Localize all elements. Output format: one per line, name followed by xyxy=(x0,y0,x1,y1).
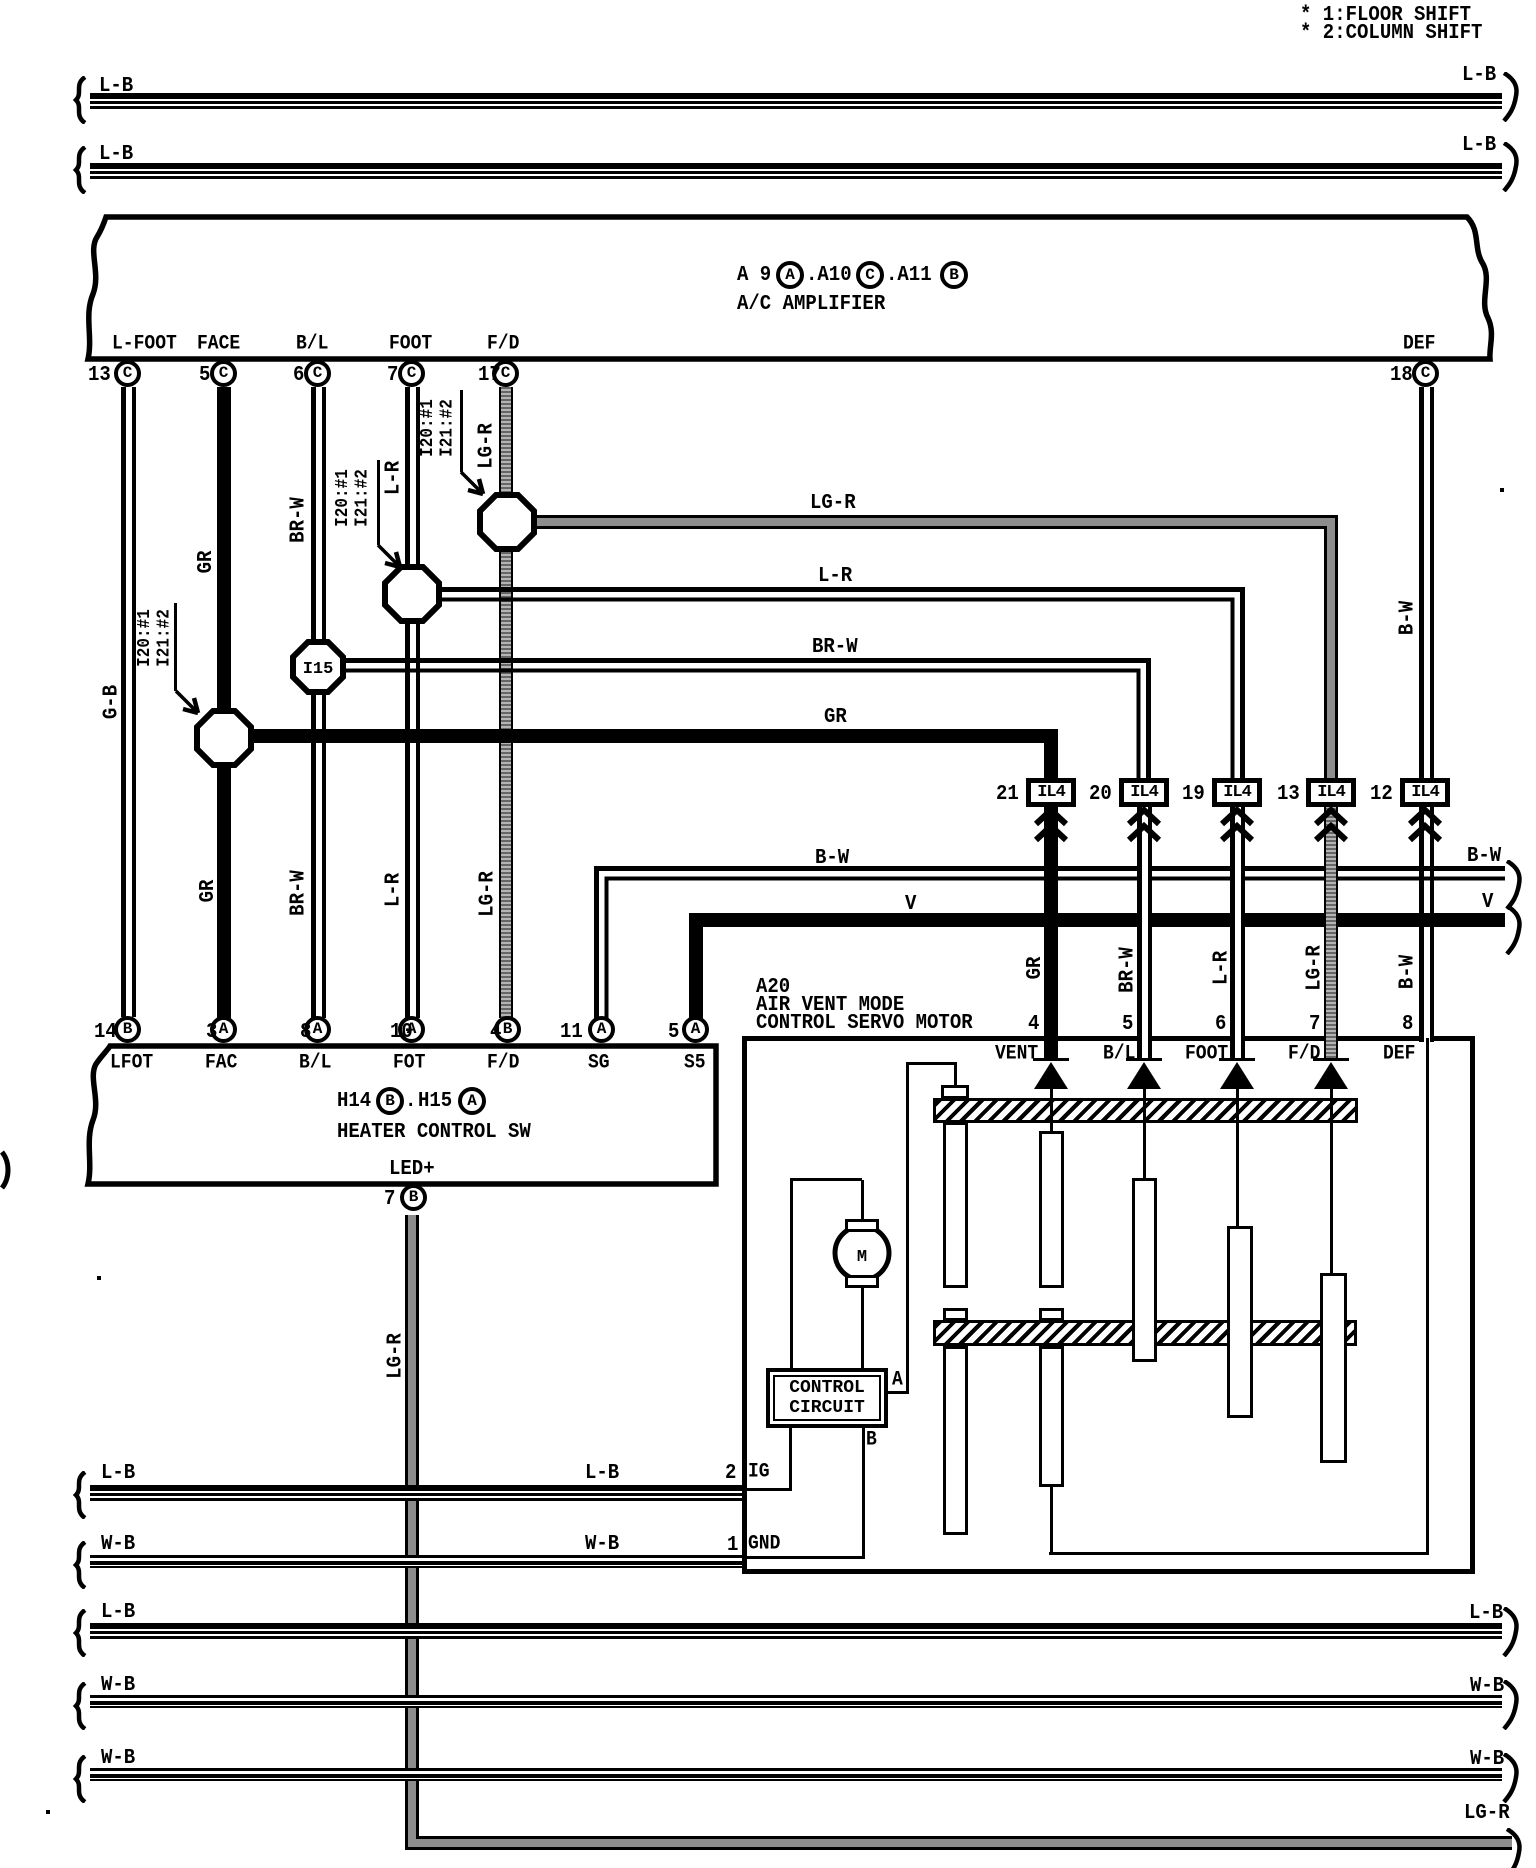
heater switch pin 7 connector B xyxy=(400,1184,427,1211)
connector 21 IL4 chevron xyxy=(1032,807,1070,845)
amplifier pin 7 connector C xyxy=(398,360,425,387)
wire GR to heater pin 3 (lower) xyxy=(217,760,231,1018)
wire L-B bus 1 left break xyxy=(70,76,90,124)
label L-R upper xyxy=(383,459,408,497)
wire L-R to heater pin 10 (lower) xyxy=(405,614,420,1018)
splice label I20:#1 I21:#2 (FACE) xyxy=(136,590,177,686)
heater switch pin name FOT xyxy=(393,1053,425,1074)
op-amp/ECU box A9-A10-A11 A/C AMPLIFIER outline xyxy=(0,0,1536,400)
wire L-B bus 3 label left xyxy=(101,1601,135,1624)
servo pin 2 number xyxy=(725,1462,736,1485)
wire W-B bus 5 xyxy=(90,1768,1502,1781)
A/C amplifier title text A 9 xyxy=(737,264,771,287)
splice label underline (F/D) xyxy=(460,390,463,472)
wire W-B bus 4 right break xyxy=(1500,1680,1522,1730)
wire L-B bus 3 xyxy=(90,1623,1502,1639)
servo VENT contact crossbar xyxy=(1033,1058,1069,1061)
wire W-B bus 5 left break xyxy=(70,1755,90,1803)
wire W-B to GND mid label xyxy=(585,1533,619,1556)
wire L-B bus 3 label right xyxy=(1469,1602,1503,1625)
servo motor box A20 outline xyxy=(742,1036,1475,1574)
servo pin name B/L xyxy=(1103,1044,1135,1065)
note: shift type legend line 1 xyxy=(1300,4,1471,27)
heater switch pin name F/D xyxy=(487,1053,519,1074)
wire LG-R bottom right break xyxy=(1503,1828,1525,1868)
label GR lower xyxy=(197,878,222,905)
amplifier pin 5 number xyxy=(199,364,210,387)
splice arrow (FOOT) xyxy=(376,543,408,575)
splice label underline (FACE) xyxy=(174,603,177,691)
amplifier pin name L-FOOT xyxy=(112,334,177,355)
amplifier pin 18 number xyxy=(1390,364,1413,387)
connector 12 IL4 box xyxy=(1400,778,1450,807)
heater switch pin 7 number xyxy=(384,1188,395,1211)
wire L-B to IG left break xyxy=(70,1471,90,1519)
connector 19 IL4 number xyxy=(1182,783,1205,806)
svg-text:M: M xyxy=(857,1248,867,1267)
wire W-B bus 4 left break xyxy=(70,1682,90,1730)
page edge mark xyxy=(0,1150,12,1190)
servo IG internal wire xyxy=(742,1488,792,1491)
servo FOOT wiper drop wire xyxy=(1236,1089,1239,1226)
servo B/L wiper contact triangle xyxy=(1127,1062,1161,1089)
servo pin 4 number xyxy=(1028,1013,1039,1036)
label LG-R lower xyxy=(477,869,502,919)
control circuit wire A stub xyxy=(888,1391,908,1394)
label L-R horizontal xyxy=(818,565,852,588)
A/C amplifier title .A11 xyxy=(886,264,932,287)
wire L-B bus 1 label right xyxy=(1462,64,1496,87)
label V right xyxy=(1482,891,1493,914)
label LG-R upper xyxy=(476,421,501,471)
wire W-B bus 5 label left xyxy=(101,1747,135,1770)
stray dot 1 xyxy=(97,1276,101,1280)
servo label CONTROL SERVO MOTOR xyxy=(756,1012,973,1035)
servo contact rail 1 (hatched) xyxy=(933,1098,1358,1123)
heater switch pin 8 connector A xyxy=(304,1016,331,1043)
servo F/D contact crossbar xyxy=(1313,1058,1349,1061)
heater switch pin 11 connector A xyxy=(588,1016,615,1043)
splice label underline (FOOT) xyxy=(377,460,380,545)
heater switch pin 8 number xyxy=(300,1021,311,1044)
connector 20 IL4 chevron xyxy=(1125,807,1163,845)
wire L-B to IG xyxy=(90,1485,742,1501)
heater switch title dot xyxy=(405,1090,416,1113)
wire L-R from pin 7 (upper) xyxy=(405,387,420,577)
amplifier pin 13 connector C xyxy=(114,360,141,387)
wire W-B to GND xyxy=(90,1555,742,1568)
control circuit box xyxy=(766,1368,888,1428)
note: shift type legend line 2 xyxy=(1300,22,1482,45)
A/C amplifier title circle A xyxy=(776,261,804,289)
splice arrow (FACE) xyxy=(174,689,206,721)
servo rail2 tab VENT column xyxy=(1039,1308,1064,1321)
heater switch pin 4 number xyxy=(490,1021,501,1044)
wire W-B bus 5 right break xyxy=(1500,1753,1522,1803)
splice arrow (F/D) xyxy=(459,470,491,502)
amplifier pin 7 number xyxy=(387,364,398,387)
wire L-B bus 2 label left xyxy=(99,143,133,166)
servo label AIR VENT MODE xyxy=(756,994,904,1017)
wire L-B bus 1 xyxy=(90,93,1502,109)
wire G-B from pin 13 xyxy=(121,387,136,1017)
label B-W upper xyxy=(1397,599,1422,637)
label B-W left xyxy=(815,847,849,870)
servo lower resistor VENT column xyxy=(1039,1346,1064,1487)
connector 12 IL4 chevron xyxy=(1406,807,1444,845)
label BR-W servo xyxy=(1117,945,1142,995)
label LG-R servo xyxy=(1304,943,1329,993)
label GR servo xyxy=(1024,955,1049,982)
motor top horizontal wire xyxy=(790,1178,862,1181)
servo B/L wiper drop wire xyxy=(1143,1089,1146,1178)
wire W-B bus 5 label right xyxy=(1470,1748,1504,1771)
control circuit wire B drop xyxy=(862,1428,865,1559)
amplifier pin name DEF xyxy=(1403,334,1435,355)
amplifier pin 6 connector C xyxy=(304,360,331,387)
servo F/D wiper contact triangle xyxy=(1314,1062,1348,1089)
label BR-W upper xyxy=(288,495,313,545)
connector 13 IL4 chevron xyxy=(1312,807,1350,845)
A/C amplifier title line 2 xyxy=(737,293,885,316)
servo GND internal wire xyxy=(742,1556,864,1559)
connector 12 IL4 number xyxy=(1370,783,1393,806)
servo pin 1 number xyxy=(727,1534,738,1557)
A/C amplifier title circle C xyxy=(856,261,884,289)
label V left xyxy=(905,893,916,916)
amplifier pin name FACE xyxy=(197,334,240,355)
connector 19 IL4 chevron xyxy=(1218,807,1256,845)
control circuit wire A riser xyxy=(906,1062,909,1394)
control circuit wire A to rail tab xyxy=(954,1062,957,1086)
servo pin name FOOT xyxy=(1185,1044,1228,1065)
servo pin name DEF xyxy=(1383,1044,1415,1065)
wire GR IL4-21 to servo pin 4 xyxy=(1044,800,1058,1058)
label LG-R bottom right xyxy=(1464,1802,1510,1825)
heater switch title circle B xyxy=(376,1087,404,1115)
servo pin 6 number xyxy=(1215,1013,1226,1036)
heater switch title line 2 xyxy=(337,1121,531,1144)
wire GR from pin 5 (upper) xyxy=(217,387,231,717)
wire B-W right break xyxy=(1503,860,1525,910)
label L-R lower xyxy=(383,871,408,909)
label L-R servo xyxy=(1211,949,1236,987)
servo pin 7 number xyxy=(1309,1013,1320,1036)
label BR-W horizontal xyxy=(812,636,858,659)
splice label I20:#1 I21:#2 (FOOT) xyxy=(334,450,375,546)
connector 13 IL4 box xyxy=(1306,778,1356,807)
amplifier pin 6 number xyxy=(293,364,304,387)
heater switch LED+ label xyxy=(389,1158,435,1181)
servo wire VENT column to ground bus xyxy=(1050,1487,1053,1555)
wire BR-W to heater pin 8 (lower) xyxy=(311,685,326,1018)
wire LG-R IL4-13 to servo pin 7 xyxy=(1324,800,1338,1058)
motor brush top xyxy=(845,1219,879,1232)
switch box H14/H15 HEATER CONTROL SW outline xyxy=(0,1000,800,1250)
servo lower resistor A column xyxy=(943,1346,968,1535)
servo rail1 slider tab (A) xyxy=(941,1085,969,1099)
servo contact rail 2 (hatched) xyxy=(933,1320,1357,1346)
A/C amplifier title circle B xyxy=(940,261,968,289)
wire L-B to IG mid label xyxy=(585,1462,619,1485)
amplifier pin name B/L xyxy=(296,334,328,355)
control circuit terminal A label xyxy=(892,1370,903,1391)
connector 20 IL4 number xyxy=(1089,783,1112,806)
wire W-B bus 4 xyxy=(90,1695,1502,1708)
label G-B xyxy=(101,683,126,721)
splice I20/I21 on LG-R (F/D) xyxy=(0,0,600,800)
label GR horizontal xyxy=(824,706,847,729)
servo VENT wiper contact triangle xyxy=(1034,1062,1068,1089)
label B-W lower (pin 8 drop) xyxy=(1397,953,1422,991)
servo resistor element FOOT column xyxy=(1227,1226,1253,1418)
servo internal wire DEF pin 8 drop xyxy=(1426,1038,1429,1555)
heater switch title circle A xyxy=(458,1087,486,1115)
wire L-B bus 1 right break xyxy=(1500,72,1522,122)
servo F/D wiper drop wire xyxy=(1330,1089,1333,1273)
wire LG-R from pin 17 (upper) xyxy=(499,387,513,505)
stray dot 3 xyxy=(1500,488,1504,492)
wire W-B bus 4 label left xyxy=(101,1674,135,1697)
servo FOOT wiper contact triangle xyxy=(1220,1062,1254,1089)
wire L-B bus 1 label left xyxy=(99,75,133,98)
servo pin IG name xyxy=(748,1462,770,1483)
splice I20/I21 on L-R (FOOT) xyxy=(0,0,600,800)
amplifier pin 18 connector C xyxy=(1412,360,1439,387)
heater switch pin name B/L xyxy=(299,1053,331,1074)
wire L-B bus 3 right break xyxy=(1500,1607,1522,1657)
servo pin name F/D xyxy=(1288,1044,1320,1065)
heater switch pin name SG xyxy=(588,1053,610,1074)
servo label A20 xyxy=(756,976,790,999)
heater switch pin 11 number xyxy=(560,1021,583,1044)
wire W-B to GND left break xyxy=(70,1541,90,1589)
motor top wire xyxy=(861,1180,864,1220)
motor left vertical wire xyxy=(790,1178,793,1370)
heater switch pin 5 number xyxy=(668,1021,679,1044)
connector 21 IL4 number xyxy=(996,783,1019,806)
label LG-R horizontal xyxy=(810,492,856,515)
connector 19 IL4 box xyxy=(1212,778,1262,807)
wire L-B bus 2 label right xyxy=(1462,134,1496,157)
connector 20 IL4 box xyxy=(1119,778,1169,807)
servo internal ground bus wire xyxy=(1049,1552,1429,1555)
servo pin GND name xyxy=(748,1534,780,1555)
heater switch title H15 xyxy=(418,1090,452,1113)
label GR upper xyxy=(195,549,220,576)
splice label I20:#1 I21:#2 (F/D) xyxy=(419,380,460,476)
heater switch pin 4 connector B xyxy=(494,1016,521,1043)
servo IG internal riser xyxy=(789,1428,792,1490)
heater switch pin 10 connector A xyxy=(398,1016,425,1043)
wire B-W from pin 18 xyxy=(1419,387,1434,1042)
connector 13 IL4 number xyxy=(1277,783,1300,806)
servo resistor element A column xyxy=(943,1122,968,1288)
heater switch title H14 xyxy=(337,1090,371,1113)
heater switch pin 14 number xyxy=(94,1021,117,1044)
control circuit wire A top horizontal xyxy=(906,1062,955,1065)
amplifier pin 17 number xyxy=(478,364,501,387)
servo resistor element VENT column xyxy=(1039,1131,1064,1288)
wire L-B to IG label left xyxy=(101,1462,135,1485)
heater switch pin 5 connector A xyxy=(682,1016,709,1043)
wire BR-W from pin 6 (upper) xyxy=(311,387,326,649)
wire W-B to GND label left xyxy=(101,1533,135,1556)
servo resistor element B/L column xyxy=(1132,1178,1157,1362)
A/C amplifier title .A10 xyxy=(806,264,852,287)
servo pin 8 number xyxy=(1402,1013,1413,1036)
heater switch pin 3 connector A xyxy=(210,1016,237,1043)
label LG-R LED wire xyxy=(385,1331,410,1381)
wire L-B bus 2 xyxy=(90,163,1502,179)
servo B/L contact crossbar xyxy=(1126,1058,1162,1061)
label B-W right xyxy=(1467,845,1501,868)
connector 21 IL4 box xyxy=(1026,778,1076,807)
wire W-B bus 4 label right xyxy=(1470,1675,1504,1698)
servo rail2 tab A column xyxy=(943,1308,968,1321)
junction I15 on BR-W xyxy=(0,0,600,800)
wire L-B bus 3 left break xyxy=(70,1609,90,1657)
heater switch pin 10 number xyxy=(390,1021,413,1044)
servo resistor element F/D column xyxy=(1320,1273,1347,1463)
control circuit terminal B label xyxy=(866,1430,877,1451)
servo VENT wiper drop wire xyxy=(1050,1089,1053,1131)
stray dot 2 xyxy=(46,1810,50,1814)
wire BR-W IL4-20 to servo pin 5 xyxy=(1137,800,1152,1058)
motor brush bottom xyxy=(845,1275,879,1288)
amplifier pin 17 connector C xyxy=(492,360,519,387)
amplifier pin name FOOT xyxy=(389,334,432,355)
wire LG-R to heater pin 4 (lower) xyxy=(499,542,513,1018)
label BR-W lower xyxy=(288,868,313,918)
heater switch pin 14 connector B xyxy=(114,1016,141,1043)
heater switch pin name FAC xyxy=(205,1053,237,1074)
wire L-B bus 2 left break xyxy=(70,146,90,194)
heater switch pin 3 number xyxy=(206,1021,217,1044)
wire L-B bus 2 right break xyxy=(1500,142,1522,192)
heater switch pin name LFOT xyxy=(110,1053,153,1074)
heater switch pin name S5 xyxy=(684,1053,706,1074)
servo pin name VENT xyxy=(995,1044,1038,1065)
wire L-R IL4-19 to servo pin 6 xyxy=(1230,800,1245,1058)
motor bottom wire to control circuit xyxy=(861,1288,864,1370)
wire V right break xyxy=(1503,905,1525,955)
amplifier pin name F/D xyxy=(487,334,519,355)
amplifier pin 5 connector C xyxy=(210,360,237,387)
splice I20/I21 on GR (FACE) xyxy=(0,0,600,800)
motor M circle xyxy=(830,1221,894,1285)
servo pin 5 number xyxy=(1122,1013,1133,1036)
amplifier pin 13 number xyxy=(88,364,111,387)
servo FOOT contact crossbar xyxy=(1219,1058,1255,1061)
